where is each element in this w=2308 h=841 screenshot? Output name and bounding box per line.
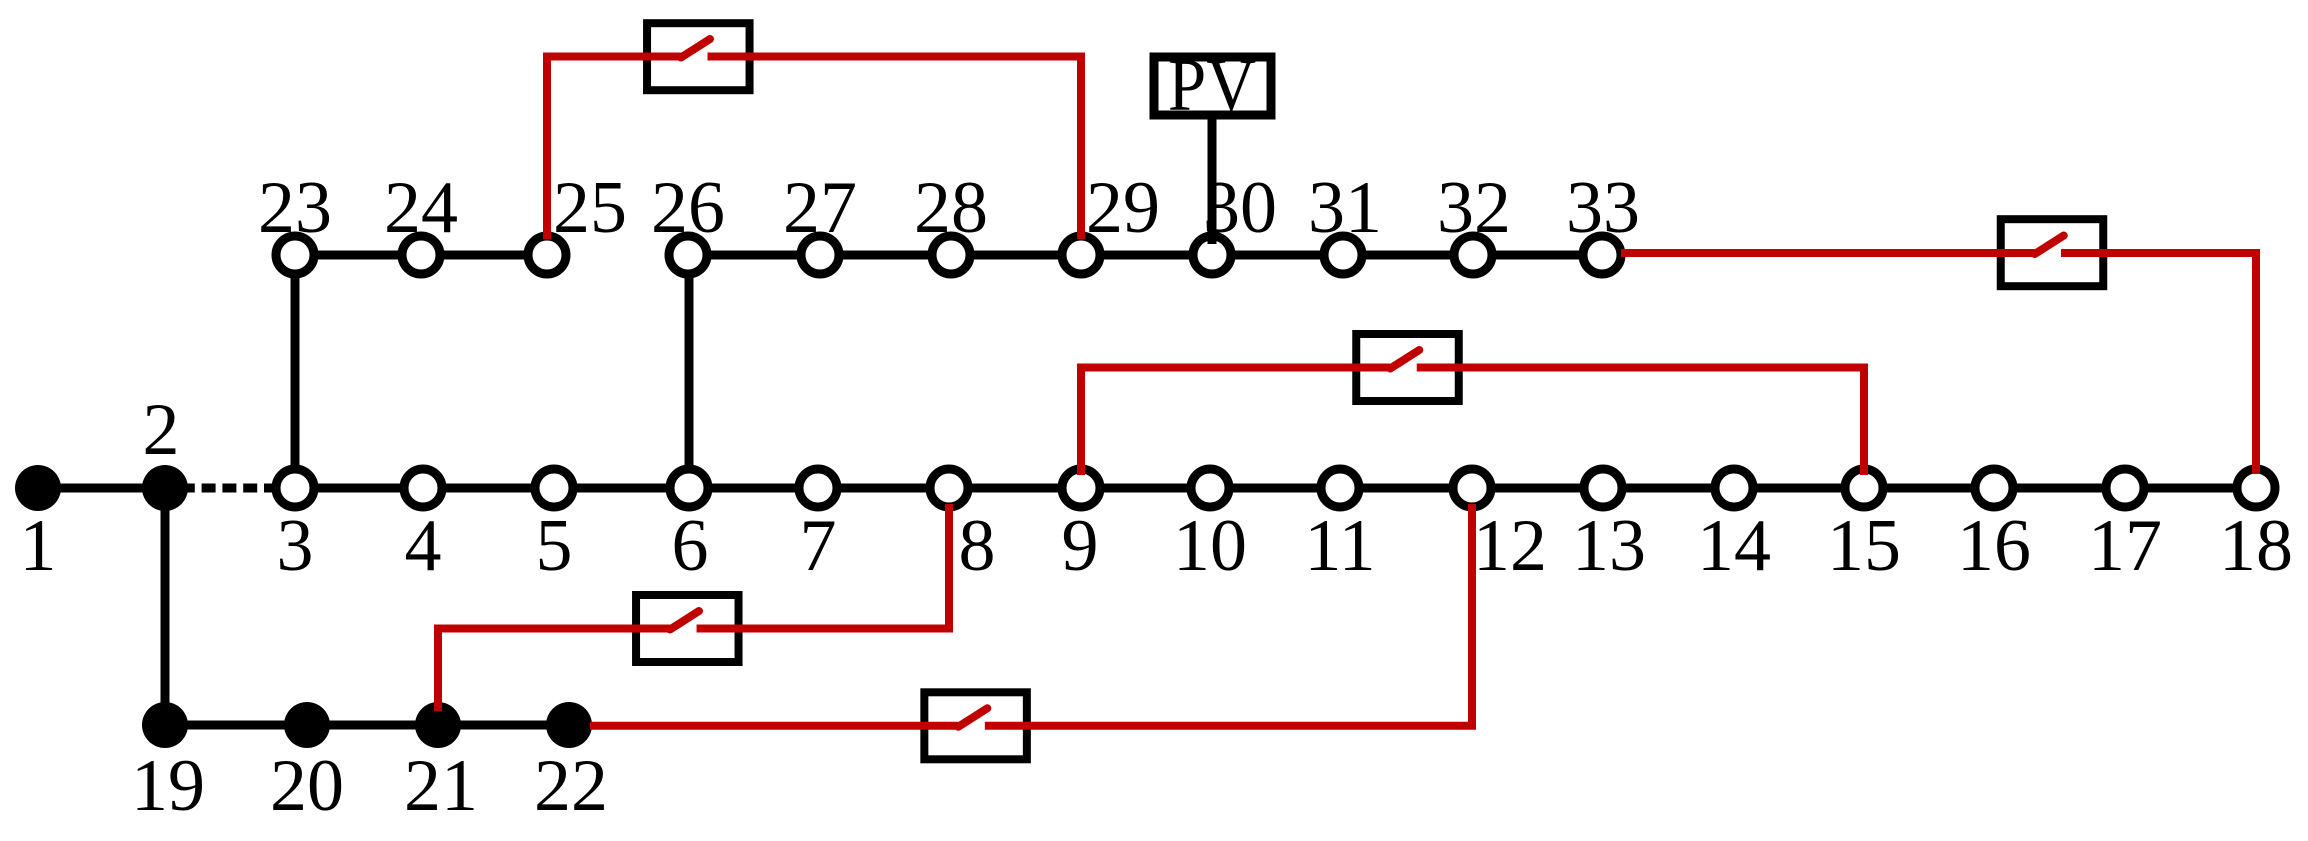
wire 6-26 <box>685 255 694 488</box>
svg-text:8: 8 <box>959 505 996 587</box>
bus 23 <box>276 236 314 274</box>
tie switch S4 box (8-21) <box>636 595 739 662</box>
svg-text:28: 28 <box>914 167 988 249</box>
svg-text:16: 16 <box>1957 505 2031 587</box>
bus 21 <box>415 702 461 748</box>
bus 25 <box>528 236 566 274</box>
bus 29 <box>1062 236 1100 274</box>
tie line 33-18 <box>1621 236 2256 475</box>
bus 3 <box>276 469 314 507</box>
tie line 22-12 <box>590 504 1472 727</box>
bus 10 <box>1191 469 1229 507</box>
bus 24 <box>402 236 440 274</box>
svg-text:14: 14 <box>1697 505 1771 587</box>
bus 5 <box>535 469 573 507</box>
wire 19-22 <box>165 721 569 730</box>
bus 22 <box>546 702 592 748</box>
bus 27 <box>801 236 839 274</box>
svg-text:9: 9 <box>1062 505 1099 587</box>
svg-text:30: 30 <box>1203 167 1277 249</box>
svg-text:15: 15 <box>1827 505 1901 587</box>
svg-text:6: 6 <box>672 505 709 587</box>
tie line 9-15 <box>1081 350 1864 475</box>
svg-text:27: 27 <box>783 167 857 249</box>
svg-text:7: 7 <box>800 505 837 587</box>
wire 3-23 <box>291 255 300 488</box>
svg-text:12: 12 <box>1473 505 1547 587</box>
bus 14 <box>1715 469 1753 507</box>
bus 12 <box>1453 469 1491 507</box>
tie switch S1 box (25-29) <box>647 23 750 90</box>
bus 7 <box>799 469 837 507</box>
bus 19 <box>142 702 188 748</box>
bus 26 <box>669 236 707 274</box>
bus 31 <box>1324 236 1362 274</box>
svg-text:11: 11 <box>1304 505 1375 587</box>
svg-text:18: 18 <box>2219 505 2293 587</box>
bus 32 <box>1454 236 1492 274</box>
wire 1-2 <box>38 484 165 493</box>
svg-text:1: 1 <box>20 505 57 587</box>
wire 2-19 <box>161 488 170 725</box>
bus 2 <box>142 465 188 511</box>
bus 4 <box>404 469 442 507</box>
svg-text:22: 22 <box>534 745 608 827</box>
svg-text:21: 21 <box>404 745 478 827</box>
wire 26-33 <box>688 251 1602 260</box>
bus 11 <box>1321 469 1359 507</box>
tie line 25-29 <box>547 39 1081 239</box>
svg-text:2: 2 <box>143 389 180 471</box>
svg-text:13: 13 <box>1572 505 1646 587</box>
svg-text:3: 3 <box>277 505 314 587</box>
tie switch S2 box (33-18) <box>2001 219 2104 286</box>
tie line 8-21 <box>438 504 949 711</box>
tie switch S3 box (9-15) <box>1356 334 1459 401</box>
svg-text:20: 20 <box>270 745 344 827</box>
bus 18 <box>2237 469 2275 507</box>
svg-text:26: 26 <box>651 167 725 249</box>
wire 2-3 dashed <box>181 484 295 493</box>
wire 23-25 <box>295 251 547 260</box>
tie switch S5 box (22-12) <box>924 692 1027 759</box>
svg-text:29: 29 <box>1086 167 1160 249</box>
bus 13 <box>1584 469 1622 507</box>
svg-text:31: 31 <box>1308 167 1382 249</box>
svg-text:4: 4 <box>405 505 442 587</box>
bus 8 <box>930 469 968 507</box>
PV source box <box>1154 43 1271 126</box>
wire 3-18 <box>295 484 2256 493</box>
svg-text:24: 24 <box>384 167 458 249</box>
bus 17 <box>2106 469 2144 507</box>
svg-text:17: 17 <box>2088 505 2162 587</box>
bus 6 <box>670 469 708 507</box>
svg-text:32: 32 <box>1437 167 1511 249</box>
bus 20 <box>284 702 330 748</box>
wire PV-30 <box>1208 113 1217 244</box>
bus 16 <box>1975 469 2013 507</box>
bus 33 <box>1583 236 1621 274</box>
svg-text:5: 5 <box>536 505 573 587</box>
bus 1 <box>15 465 61 511</box>
svg-text:23: 23 <box>258 167 332 249</box>
svg-text:10: 10 <box>1173 505 1247 587</box>
svg-text:19: 19 <box>131 745 205 827</box>
bus 15 <box>1845 469 1883 507</box>
bus 9 <box>1062 469 1100 507</box>
bus 30 <box>1193 236 1231 274</box>
bus 28 <box>932 236 970 274</box>
svg-text:33: 33 <box>1566 167 1640 249</box>
svg-text:25: 25 <box>553 167 627 249</box>
